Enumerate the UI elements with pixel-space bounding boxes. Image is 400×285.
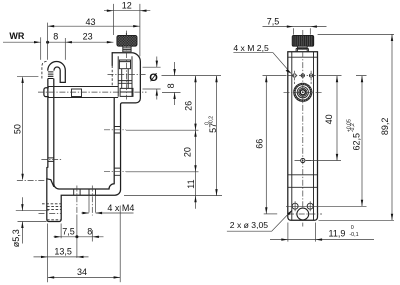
- dim 13,5 arrows: [41, 256, 48, 258]
- svg-text:66: 66: [255, 139, 265, 149]
- svg-text:11,9: 11,9: [329, 228, 346, 238]
- dim 8 (clamp) extensions: [162, 76, 222, 93]
- dim 34 arrows: [48, 276, 55, 278]
- svg-text:0: 0: [351, 225, 354, 231]
- small hole mid body: [301, 158, 305, 162]
- dim 66 line: [265, 76, 267, 214]
- dim 12 arrows: [107, 10, 114, 12]
- M4 hole edge extension below bar: [89, 196, 96, 213]
- svg-text:8: 8: [53, 32, 58, 42]
- dim 43 arrows: [48, 25, 55, 27]
- svg-text:4 x M 2,5: 4 x M 2,5: [233, 43, 269, 53]
- dim 40 arrows: [336, 76, 338, 83]
- dim 7,5 arrows: [287, 25, 294, 27]
- o3,05 hole vertical ticks: [295, 201, 310, 211]
- svg-text:11: 11: [186, 179, 196, 188]
- clamp cavity walls: [118, 56, 132, 97]
- M2.5 row centerline through body: [288, 75, 317, 77]
- right bar hole2 centerline: [104, 171, 126, 173]
- big circle centerline extension left: [264, 213, 278, 215]
- dim 89,2 arrows: [391, 34, 393, 41]
- label 4xM4 leader arrows: [81, 212, 133, 214]
- extension tab right edge: [60, 224, 62, 239]
- extension line hook left: [47, 23, 49, 60]
- foot tab slot centerline: [39, 213, 62, 215]
- bend centerline (50 dim lower ref): [17, 179, 46, 181]
- dim 62,5 line: [361, 76, 363, 207]
- dim 7,5 line: [263, 26, 327, 28]
- body internal horizontals: [288, 175, 318, 188]
- dim 66 arrows: [265, 76, 267, 83]
- clamp bore centerline: [108, 73, 147, 75]
- bracket left bar right edge and inner bend to bottom bar top edge: [54, 79, 114, 189]
- small hole extension right: [306, 160, 341, 162]
- label 2xo3,05 leader: [227, 210, 292, 231]
- dim 23 arrow: [107, 41, 114, 43]
- svg-text:-0,2: -0,2: [209, 116, 215, 125]
- body outline: [288, 52, 318, 221]
- svg-text:8: 8: [87, 226, 92, 236]
- svg-text:7,5: 7,5: [267, 17, 280, 27]
- M2.5 hole 1: [293, 74, 296, 77]
- dim 62,5 arrows: [361, 76, 363, 83]
- screw tip box: [120, 88, 133, 96]
- knob top tick: [125, 33, 127, 35]
- rod centerline: [38, 91, 147, 93]
- clamp left wall upper: [111, 53, 113, 66]
- rod hub rectangle: [72, 89, 82, 97]
- bracket main outline (clamp body, right bar, bottom bar, foot tab): [47, 53, 141, 222]
- left bar hole centerline: [41, 159, 61, 161]
- foot tab hidden slot lines: [42, 204, 61, 220]
- extension tab left edge: [47, 224, 49, 283]
- label 4xM2,5 leader: [233, 53, 290, 73]
- big circle centerline: [288, 213, 322, 215]
- o3,05 hole right: [307, 203, 313, 209]
- rod (horizontal arm): [48, 87, 118, 98]
- rod end cap: [44, 88, 48, 97]
- label 2xo3,05 arrowhead: [287, 210, 292, 216]
- dim 7,5/8 bottom line: [54, 236, 104, 238]
- bottom bar M4 hole ticks: [74, 189, 96, 196]
- dim 50 arrows: [21, 76, 23, 83]
- svg-text:Ø: Ø: [149, 72, 158, 84]
- dim 43 line: [48, 25, 140, 27]
- M2.5 hole 3: [309, 74, 312, 77]
- M2.5 hole 2: [301, 74, 304, 77]
- M4 centerline extensions to dims: [77, 215, 92, 242]
- svg-text:7,5: 7,5: [62, 226, 75, 236]
- extension line hook right: [64, 38, 66, 60]
- screw shank inside clamp: [122, 69, 129, 89]
- bore knurled ring: [294, 84, 311, 101]
- dim 11,9 arrows: [281, 238, 288, 240]
- clamp left wall hidden: [111, 65, 113, 86]
- extension line WR: [40, 37, 42, 60]
- dim 40 line: [336, 76, 338, 161]
- dim 13,5 line: [34, 256, 89, 258]
- svg-text:23: 23: [83, 32, 93, 42]
- body inner verticals: [292, 52, 314, 221]
- svg-text:43: 43: [86, 17, 96, 27]
- bore circle middle: [297, 87, 308, 98]
- dim 8/23 dot: [46, 41, 49, 44]
- body bottom extension right: [319, 219, 395, 221]
- svg-text:62,5: 62,5: [352, 133, 362, 151]
- dim o5,3 vertical line and arrows: [21, 197, 23, 243]
- knob top extension right: [318, 33, 394, 35]
- right bar hole2 ticks: [114, 168, 120, 175]
- knob (front view, knurled): [292, 35, 314, 46]
- svg-text:-0,1: -0,1: [349, 232, 358, 238]
- svg-text:ø5,3: ø5,3: [11, 229, 21, 247]
- bore inner ring: [300, 90, 305, 95]
- dim 34 line: [48, 276, 121, 278]
- dim 50 line: [22, 78, 24, 180]
- dim 89,2 line: [391, 34, 393, 220]
- bend V-notch: [47, 179, 54, 187]
- small hole centerline: [295, 160, 312, 162]
- right bar hole1 centerline: [104, 129, 126, 131]
- dim 7,5 extensions: [293, 28, 310, 34]
- chain arrows: [194, 76, 196, 83]
- hook thread hatch: [48, 72, 54, 79]
- svg-text:13,5: 13,5: [54, 247, 72, 257]
- bore center dot: [302, 91, 304, 93]
- knob (side view, knurled): [117, 35, 137, 46]
- dim 11,9 line: [270, 239, 374, 241]
- dim 57 arrows: [215, 76, 217, 83]
- o3,05 hole left: [292, 203, 298, 209]
- M4 hole centerlines: [77, 186, 92, 216]
- WR arrow: [34, 41, 41, 43]
- screw nut inside clamp: [119, 60, 130, 69]
- dim 50 top extension: [17, 75, 38, 77]
- bore circle inner: [299, 88, 307, 96]
- M2.5 hole tick centerlines: [295, 71, 312, 84]
- dim 8 (clamp) vertical line: [174, 62, 176, 105]
- dim O-diameter vertical line: [156, 57, 158, 100]
- svg-text:-0,2: -0,2: [350, 123, 356, 132]
- dim O arrows: [156, 61, 158, 68]
- svg-text:34: 34: [77, 267, 87, 277]
- left bar hole ticks: [48, 158, 54, 162]
- WR leader line: [3, 41, 41, 43]
- dim 57 line: [216, 76, 218, 196]
- svg-text:40: 40: [324, 114, 334, 124]
- washer lines: [118, 81, 132, 84]
- o3,05 row line: [286, 205, 367, 207]
- dim 8/23 line: [48, 41, 114, 43]
- bracket left bar left edge with step: [46, 79, 49, 179]
- svg-text:89,2: 89,2: [380, 118, 390, 136]
- bottom bar lower extension line: [124, 195, 222, 197]
- chain dim line 26/20/11: [195, 76, 197, 209]
- svg-text:8: 8: [166, 83, 176, 88]
- dim 7,5/8 arrows and dot: [55, 236, 62, 238]
- body top second line: [288, 56, 318, 58]
- bore horizontal centerline: [284, 91, 323, 93]
- dim 12 extension lines: [113, 4, 139, 56]
- svg-text:20: 20: [182, 147, 192, 157]
- extension bar right edge down: [119, 206, 121, 283]
- hook hidden profile arc: [42, 61, 48, 78]
- svg-text:4 x M4: 4 x M4: [107, 203, 134, 213]
- dim 12 line: [104, 10, 150, 12]
- main vertical centerline: [302, 30, 304, 227]
- svg-text:50: 50: [13, 124, 23, 134]
- bore knurl texture: [294, 84, 311, 101]
- shaft collar: [296, 49, 308, 52]
- hook outline: [48, 61, 66, 82]
- screw centerline: [125, 31, 127, 100]
- screw shaft front: [297, 46, 307, 52]
- svg-text:12: 12: [122, 1, 132, 11]
- svg-text:WR: WR: [9, 31, 24, 41]
- small hole center dot: [302, 160, 304, 162]
- svg-text:26: 26: [183, 101, 193, 111]
- M2.5 row centerline left segment: [263, 75, 287, 77]
- dim 11,9 extensions: [288, 223, 316, 242]
- right bar hole1 ticks: [114, 127, 120, 134]
- bottom big circle: [297, 208, 309, 220]
- dim 8 arrow: [65, 41, 72, 43]
- label 4xM2,5 arrowhead: [286, 69, 292, 74]
- screw shaft above clamp: [123, 46, 131, 52]
- M2.5 row centerline right segment: [319, 75, 367, 77]
- svg-text:2 x ø 3,05: 2 x ø 3,05: [230, 220, 268, 230]
- dim O extension lines: [143, 67, 161, 89]
- dim 8 (clamp) arrows: [173, 69, 175, 76]
- hole extension lines to chain: [126, 130, 199, 172]
- extension dot line down: [76, 237, 78, 258]
- dim o5,3 extension lines: [16, 211, 49, 222]
